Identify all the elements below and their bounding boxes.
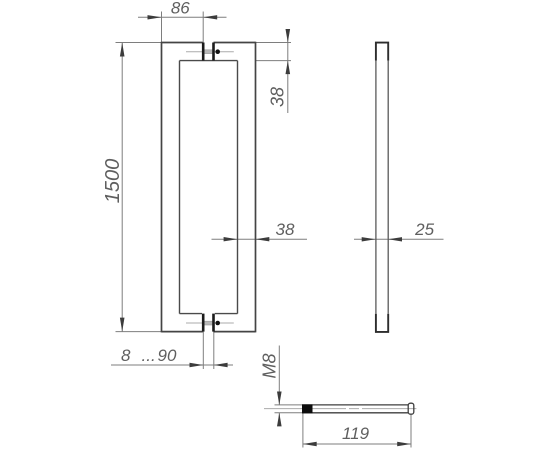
svg-text:38: 38 [268, 87, 288, 107]
svg-text:38: 38 [276, 220, 295, 239]
svg-text:25: 25 [414, 220, 434, 239]
svg-text:119: 119 [342, 424, 370, 443]
svg-text:8: 8 [121, 346, 131, 365]
svg-text:90: 90 [158, 346, 177, 365]
svg-text:...: ... [142, 346, 156, 365]
svg-text:86: 86 [171, 0, 190, 18]
svg-text:1500: 1500 [102, 159, 124, 204]
svg-text:M8: M8 [260, 353, 280, 378]
